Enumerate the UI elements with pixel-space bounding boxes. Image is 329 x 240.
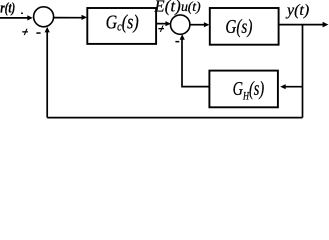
svg-text:y(t): y(t) bbox=[285, 2, 309, 19]
svg-text:r(t): r(t) bbox=[0, 0, 15, 16]
svg-text:GH(s): GH(s) bbox=[233, 77, 265, 103]
svg-text:E(t): E(t) bbox=[154, 0, 181, 16]
svg-text:G(s): G(s) bbox=[225, 15, 252, 38]
svg-text:Gc(s): Gc(s) bbox=[106, 11, 139, 34]
svg-text:u(t): u(t) bbox=[181, 0, 201, 15]
